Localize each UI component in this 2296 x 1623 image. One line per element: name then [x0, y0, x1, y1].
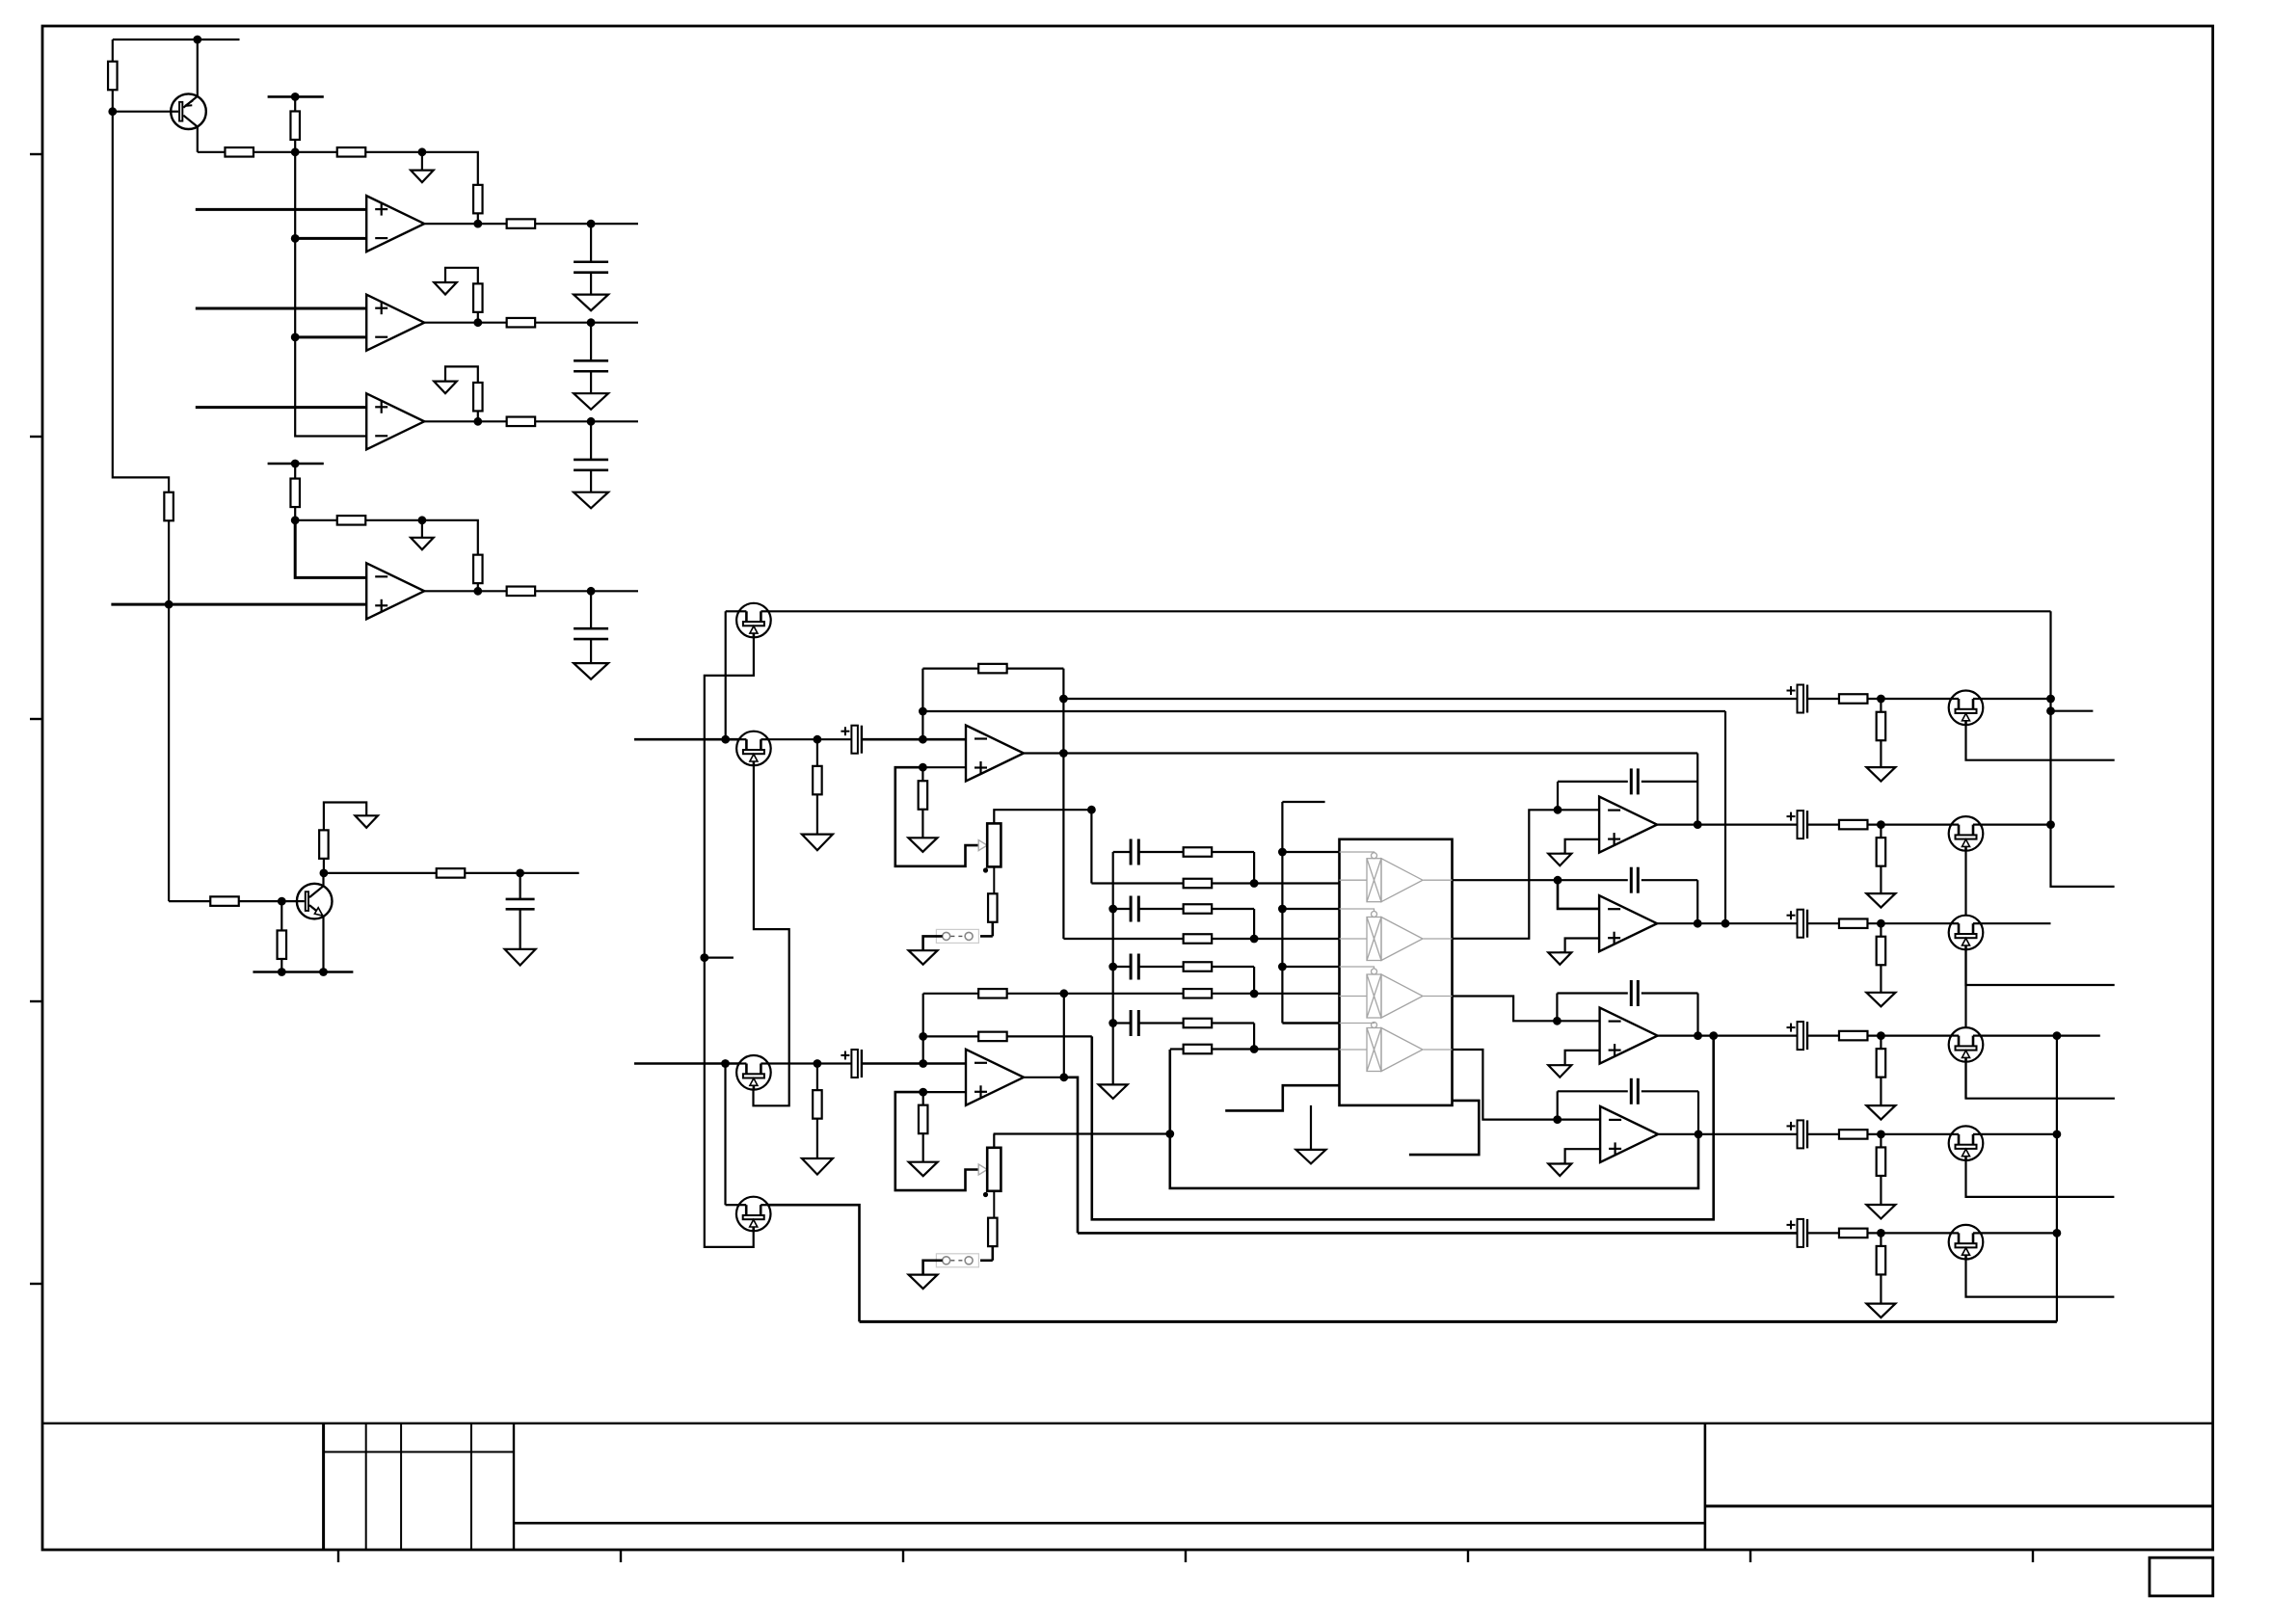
wire to switch SW1 — [980, 935, 993, 938]
wire bias2 loop — [1092, 1036, 1714, 1220]
wire U7 output — [1657, 823, 1797, 825]
wire U6 plus box to pot wiper — [895, 1092, 978, 1190]
bus upper right — [2051, 611, 2115, 887]
node dot bus row4 — [1108, 1019, 1117, 1027]
wire IC ground pin — [1310, 1105, 1312, 1150]
resistor R30 — [1839, 1031, 1868, 1041]
resistor R23 — [988, 893, 998, 922]
node dot pot2 wire — [1165, 1130, 1174, 1138]
wire U9 fb row — [1557, 992, 1627, 994]
node dot out2 — [587, 318, 596, 327]
node dot U7 minus — [1554, 806, 1562, 814]
mosfet M2 — [736, 732, 771, 766]
wire M4 left — [726, 1204, 739, 1206]
supply bar 1 — [268, 95, 324, 98]
wire U2 plus input — [196, 307, 366, 310]
wire M1 to M2 row — [725, 611, 727, 739]
node dot U5 plus — [919, 763, 927, 772]
node dot bias2 row — [919, 1032, 927, 1041]
wire U8 fb right — [1642, 879, 1697, 881]
wire feedback top op1 — [422, 152, 478, 185]
buffer U11 ch4 — [1340, 1049, 1368, 1051]
resistor R44 — [1184, 1019, 1213, 1028]
resistor R37 feedback U6 — [978, 989, 1007, 998]
resistor R10 feedback U3 — [473, 383, 483, 412]
wire ladder row1b — [1091, 882, 1183, 884]
wire fb row op4 — [295, 519, 337, 521]
wire ladder row2b — [1063, 938, 1183, 940]
resistor R25 divider — [1880, 699, 1882, 712]
wire RV2 bottom — [993, 1191, 995, 1218]
node dot bus row3 — [1108, 963, 1117, 971]
bus lower right — [2056, 1036, 2058, 1322]
resistor R32 — [1839, 1130, 1868, 1139]
wire U8 output — [1657, 922, 1797, 924]
wire M9 gate — [1966, 1160, 2115, 1197]
node base junction dot — [108, 107, 117, 116]
node dot U9 minus — [1553, 1017, 1562, 1025]
sheet-size stamp box — [2149, 1557, 2213, 1596]
wire U8 plus hook — [1560, 939, 1599, 953]
node dot U5 output — [1059, 749, 1068, 758]
wire U1 plus input — [196, 208, 366, 211]
wire to R4 — [295, 151, 337, 153]
wire M4 left lead drop — [724, 1064, 726, 1206]
wire ch6 row — [1078, 1232, 1798, 1235]
mosfet M8 ch4 — [1949, 1027, 1984, 1062]
mosfet M4 — [736, 1197, 771, 1232]
node dot U10 minus — [1553, 1115, 1562, 1124]
wire U6 plus — [923, 1091, 966, 1093]
wire M2 to cap — [768, 738, 851, 740]
wire ch4 cap to R — [1807, 1034, 1839, 1036]
mosfet M1 — [736, 603, 771, 638]
wire U6 feedback down — [1063, 994, 1065, 1078]
capacitor C11 electrolytic — [1798, 910, 1804, 938]
node dot feedback — [418, 147, 427, 156]
ground under R22 — [908, 838, 937, 852]
node dot ch6 bus — [2053, 1229, 2062, 1237]
buffer U11 ch3 — [1340, 996, 1368, 998]
bottom rail — [860, 1320, 2057, 1323]
node dot U10 out — [1695, 1131, 1703, 1139]
ground hook U10 — [1548, 1164, 1571, 1177]
node dot U5 minus — [919, 735, 927, 744]
node dot ch3 div — [1877, 919, 1885, 928]
bottom rail Q2 — [253, 971, 353, 973]
node dot base — [278, 897, 286, 906]
capacitor C9 electrolytic — [1798, 811, 1804, 838]
wire U7 fb row — [1558, 781, 1628, 783]
wire SW1 to ground — [923, 936, 943, 950]
op-amp U6 — [966, 1050, 1024, 1105]
node dot gnd hook op4 — [418, 516, 427, 524]
op-amp U7 — [1599, 797, 1657, 853]
wire U1 minus input — [295, 237, 366, 240]
fold ticks bottom edge — [337, 1550, 339, 1562]
node dot ch2 div — [1877, 820, 1885, 829]
wire tap3 — [1282, 966, 1339, 968]
resistor R43 — [1184, 962, 1213, 971]
wire C19 to R42 — [1138, 908, 1183, 910]
node dot fb row op4 — [291, 516, 300, 524]
node dot tap1 — [1278, 848, 1287, 857]
wire M8 gate — [1964, 1062, 1966, 1099]
wire U3 output — [424, 420, 507, 422]
resistor R35 divider — [1880, 1233, 1882, 1246]
mosfet M9 ch5 — [1949, 1126, 1984, 1160]
capacitor C5 — [519, 873, 521, 899]
wire ch2 cap to R — [1807, 823, 1839, 825]
wire ch1 to bus — [1981, 698, 2051, 700]
wire left rail to Q2 base — [168, 604, 170, 901]
resistor R8 feedback U2 — [473, 283, 483, 312]
wire SW2 to ground — [923, 1261, 943, 1275]
mosfet M7 ch3 — [1949, 916, 1984, 950]
potentiometer RV1 — [987, 823, 1001, 866]
node dot M4 tap — [721, 1059, 730, 1068]
ground under IC — [1296, 1150, 1326, 1164]
ground under R36 — [802, 1158, 833, 1175]
node dot RV1 wiper bottom — [983, 867, 988, 872]
node dot RV2 wiper bottom — [983, 1192, 988, 1197]
node dot gate bus stub — [700, 953, 708, 962]
wire RV1 top — [994, 810, 1091, 823]
wire U7 fb up — [1557, 782, 1559, 810]
wire U2 minus input — [295, 335, 366, 338]
wire RV2 top — [993, 1134, 995, 1148]
wire ch3 right — [1981, 922, 2051, 924]
buffer U11 ch2 — [1340, 938, 1368, 940]
node dot U8 fb — [1554, 876, 1562, 885]
resistor R2 — [225, 147, 254, 157]
wire U5 plus — [922, 766, 966, 768]
wire bias2 row R — [923, 1035, 978, 1037]
node dot U6 minus — [919, 1059, 927, 1068]
ground under C3 — [574, 492, 608, 509]
wire M5 gate — [1966, 725, 2115, 760]
wire ch1 row left — [1063, 698, 1797, 700]
wire bus top stub — [1282, 801, 1324, 803]
op-amp U9 — [1600, 1008, 1658, 1064]
node dot U9 out — [1694, 1031, 1702, 1040]
wire U10 fb down — [1697, 1091, 1699, 1134]
wire IC pin stub S3 — [1409, 1101, 1479, 1155]
wire minus bus op4 — [295, 520, 366, 578]
wire RV1 bottom — [993, 866, 995, 893]
wire Q1 collector — [197, 127, 199, 152]
wire tap1 — [1282, 851, 1339, 853]
ground under C4 — [574, 663, 608, 679]
wire ch4 to bus — [1981, 1034, 2057, 1036]
node dot U9 out bias — [1709, 1031, 1718, 1040]
resistor R19 — [280, 901, 282, 931]
op-amp U4 — [366, 563, 424, 619]
resistor R38 — [978, 1032, 1007, 1042]
wire pot2 top row — [994, 1132, 1170, 1134]
resistor R39 — [922, 1092, 924, 1105]
capacitor C15 electrolytic — [1798, 1120, 1804, 1148]
wire fb to R14 — [422, 520, 478, 555]
wire IC rowC to U9 minus — [1453, 997, 1600, 1022]
ground under C2 — [574, 393, 608, 410]
wire ch3 cap to R — [1807, 922, 1839, 924]
switch SW1 — [936, 929, 978, 943]
minus input bus — [295, 152, 366, 437]
wire U5 feedback row — [922, 667, 978, 669]
supply bar 2 — [268, 463, 324, 466]
wire U10 plus hook — [1560, 1149, 1600, 1163]
wire base — [113, 111, 181, 113]
wire U5 feedback down — [1062, 669, 1064, 939]
capacitor C8 — [1630, 768, 1633, 794]
IC U11 body — [1340, 839, 1453, 1105]
capacitor C2 — [590, 323, 592, 361]
node dot U7 out — [1694, 820, 1702, 829]
node dot ladder row 4 — [1250, 1045, 1259, 1053]
op-amp U8 — [1599, 895, 1657, 951]
wiper arrow RV1 — [978, 840, 987, 851]
ground hook 2 — [445, 268, 478, 284]
bus ladder right — [1281, 802, 1283, 1024]
wire M7 gate — [1966, 949, 2115, 1098]
wire U3 plus input — [196, 406, 366, 409]
capacitor C17 electrolytic — [851, 1050, 858, 1078]
wire U8 fb row — [1558, 879, 1628, 881]
wire U5 plus box to pot wiper — [895, 767, 978, 866]
wire U9 output — [1658, 1034, 1798, 1036]
wire collector row Q2 — [324, 872, 436, 874]
wire U6 feedback up — [922, 994, 924, 1064]
ground under R35 — [1866, 1304, 1895, 1318]
node dot input R lower — [814, 1059, 822, 1068]
wire C6 to U5 minus — [862, 738, 966, 741]
title block line right — [1705, 1504, 2213, 1507]
wire ch6 cap to R — [1807, 1232, 1839, 1234]
node dot Q2 collector — [320, 869, 329, 878]
wire U5 output — [1024, 752, 1063, 754]
node dot ch2 bus — [2046, 820, 2055, 829]
wire U6 feedback row / ladder row3b — [923, 993, 978, 995]
op-amp U5 — [966, 726, 1024, 782]
wire U10 out down to pot loop — [1170, 1050, 1698, 1188]
node dot ch1 bus — [2046, 695, 2055, 704]
node dot R3 bus — [291, 147, 300, 156]
resistor R14 — [473, 555, 483, 584]
node dot U6 output — [1059, 1073, 1068, 1081]
resistor R34 — [1839, 1229, 1868, 1238]
wire U10 fb right — [1642, 1090, 1698, 1092]
node dot bus row2 — [1108, 905, 1117, 914]
wire U7 plus hook — [1560, 839, 1599, 854]
ground under R27 — [1866, 893, 1895, 908]
resistor R6 — [507, 219, 536, 228]
resistor R33 divider — [1880, 1134, 1882, 1148]
resistor R26 — [1839, 820, 1868, 830]
wire Q1 emitter — [197, 40, 199, 95]
wire M2 gate bus — [754, 765, 789, 1105]
title block left table — [322, 1423, 325, 1550]
wire M4 right to rail — [768, 1205, 860, 1321]
wire Q2 base row — [169, 900, 210, 902]
wire U6 output — [1024, 1077, 1064, 1078]
resistor R28 — [1839, 918, 1868, 928]
wire IC rowB to U7 minus — [1453, 810, 1600, 939]
transistor Q1 (PNP) — [171, 93, 206, 129]
ground hook Q2 — [324, 803, 366, 831]
capacitor C12 — [1630, 980, 1633, 1006]
wire U4 plus input — [111, 603, 366, 606]
ground under C5 — [505, 949, 536, 966]
resistor R47 — [1184, 989, 1213, 998]
wire ladder row3b right — [1064, 993, 1184, 995]
resistor R1 — [112, 40, 114, 62]
ground ladder bus — [1099, 1084, 1128, 1099]
wire Q2 collector up — [322, 873, 324, 887]
wire input row lower — [634, 1062, 739, 1065]
wire C18 to R41 — [1138, 851, 1183, 853]
wire IC pin stub S1 — [1225, 1085, 1339, 1110]
mosfet M6 ch2 — [1949, 816, 1984, 851]
ground hook U8 — [1548, 952, 1571, 965]
op-amp U2 — [366, 295, 424, 351]
wire to switch SW2 — [980, 1260, 993, 1263]
wire C20 to R43 — [1138, 966, 1183, 968]
fold ticks left edge — [30, 153, 42, 155]
resistor R17 — [437, 868, 466, 878]
wire U8 minus — [1558, 880, 1599, 909]
capacitor C1 — [590, 224, 592, 262]
wire ch6 to bus — [1981, 1232, 2057, 1234]
node dot out4 — [587, 587, 596, 596]
wire Q2 emitter down — [322, 917, 324, 972]
wire U6 out to ch6 — [1064, 1078, 1078, 1234]
wire M10 gate — [1966, 1260, 2115, 1297]
resistor R15 — [507, 587, 536, 597]
node dot tap2 — [1278, 905, 1287, 914]
resistor R48 — [1184, 1045, 1213, 1054]
node dot ladder row 3 — [1250, 990, 1259, 998]
resistor R3 — [294, 96, 296, 111]
op-amp U10 — [1600, 1106, 1658, 1162]
wire U8 fb down to out — [1696, 880, 1698, 923]
resistor R21 feedback U5 — [978, 664, 1007, 674]
node dot ch4 div — [1877, 1031, 1885, 1040]
resistor R41 — [1184, 847, 1213, 857]
resistor R5 — [473, 185, 483, 214]
wire ladder cap row 2 — [1113, 908, 1131, 910]
wire U9 plus hook — [1560, 1051, 1599, 1065]
resistor R16 — [319, 830, 329, 859]
node dot M1-M2 — [721, 735, 730, 744]
ground hook U9 — [1548, 1065, 1571, 1078]
wire C17 to U6 minus — [862, 1062, 966, 1065]
capacitor C13 electrolytic — [1798, 1022, 1804, 1050]
resistor R18 — [210, 896, 239, 906]
resistor R9 — [507, 318, 536, 328]
wire M1 left lead — [726, 610, 739, 612]
resistor R24 — [1839, 694, 1868, 704]
capacitor C14 — [1630, 1078, 1633, 1104]
node dot U8 out bias — [1722, 919, 1730, 928]
wire ladder cap row 3 — [1113, 966, 1131, 968]
capacitor C4 — [590, 591, 592, 628]
wire ladder cap row 1 — [1113, 851, 1131, 853]
wire tap4 — [1282, 1022, 1339, 1024]
ground under SW2 — [909, 1275, 938, 1290]
wire U5 out to op7 col — [1063, 752, 1697, 754]
node dot RV1 to ladder — [1087, 806, 1096, 814]
ground under R39 — [909, 1162, 938, 1177]
ground hook 1 — [421, 152, 423, 171]
wire IC rowA to U8 — [1453, 879, 1559, 881]
wire ch4 stub — [2057, 1034, 2100, 1036]
wire IC rowD to U10 minus — [1453, 1050, 1601, 1120]
wire ch5 to bus — [1981, 1133, 2057, 1135]
buffer U11 ch1 — [1340, 879, 1368, 881]
node dot bias stub — [2046, 706, 2055, 715]
capacitor C6 electrolytic — [851, 726, 858, 754]
capacitor C19 — [1130, 896, 1133, 922]
ground under R29 — [1866, 993, 1895, 1007]
capacitor C10 — [1630, 867, 1633, 893]
wire bias row U5 — [922, 710, 1725, 712]
node dot ch5 div — [1877, 1131, 1885, 1139]
wire U9 fb down — [1696, 994, 1698, 1036]
node dot input R — [814, 735, 822, 744]
wire ch1 cap to R — [1807, 698, 1839, 700]
op-amp U1 — [366, 196, 424, 252]
wire input row upper — [634, 738, 739, 741]
wiper arrow RV2 — [978, 1164, 987, 1175]
wire bias stub — [2051, 710, 2094, 712]
op-amp U3 — [366, 393, 424, 449]
mosfet M5 ch1 — [1949, 691, 1984, 726]
ground hook U7 — [1548, 854, 1571, 866]
wire ladder cap row 4 — [1113, 1022, 1131, 1024]
wire tap2 — [1282, 908, 1339, 910]
title block right divider — [1704, 1423, 1707, 1550]
wire M1 drain top rail — [768, 610, 2050, 612]
resistor R22 — [921, 767, 923, 781]
wire stub gate bus — [705, 956, 734, 958]
node dot U8 out — [1694, 919, 1702, 928]
ground under R20 — [802, 835, 833, 851]
resistor R27 divider — [1880, 825, 1882, 838]
node dot ch6 div — [1877, 1229, 1885, 1237]
wire U9 fb up — [1556, 994, 1558, 1022]
wire U10 fb up — [1557, 1091, 1559, 1119]
wire U5col down — [1696, 754, 1698, 825]
wire M1 gate bus — [705, 637, 754, 1247]
resistor R13 — [337, 516, 366, 525]
mosfet M10 ch6 — [1949, 1225, 1984, 1260]
title block line middle — [514, 1522, 1705, 1525]
wire U4 output — [424, 590, 507, 592]
mosfet M3 — [736, 1055, 771, 1090]
ground under R25 — [1866, 767, 1895, 782]
wire ladder row4b — [1170, 1048, 1184, 1050]
ground hook 4 — [421, 520, 423, 538]
wire top supply node — [113, 39, 240, 40]
wire ladder jog 3 — [1253, 967, 1255, 994]
wire ladder jog 4 — [1253, 1024, 1255, 1050]
capacitor C3 — [590, 421, 592, 460]
switch SW2 — [936, 1254, 978, 1267]
capacitor C7 electrolytic — [1798, 685, 1804, 713]
ground hook 3 — [445, 366, 478, 383]
wire U1 output — [424, 223, 507, 225]
